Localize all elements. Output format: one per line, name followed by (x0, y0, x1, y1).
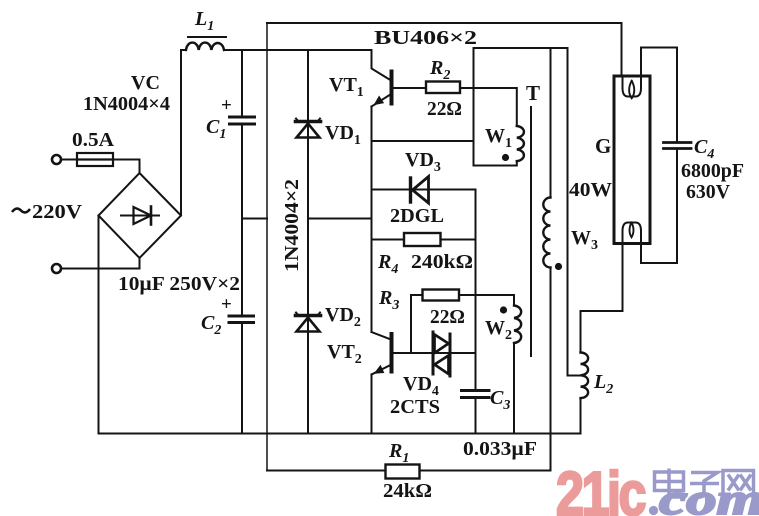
wire C2 to bottom rail (241, 324, 243, 434)
wire lamp right pin top to C4 (641, 48, 677, 142)
wire W1 bottom loop (474, 161, 517, 166)
lamp bottom filament (623, 223, 642, 243)
wire terminal to fuse (61, 159, 77, 161)
bridge inner diode (121, 207, 159, 225)
diode VD3 row wire (372, 189, 476, 191)
terminal lower AC (52, 264, 61, 273)
resistor R3 left leg (410, 295, 412, 353)
resistor R4 (404, 233, 441, 246)
inductor L2 (581, 353, 589, 399)
fuse FU 0.5A (77, 153, 113, 166)
transistor VT2 base bar (390, 334, 394, 372)
capacitor C2 (229, 316, 254, 323)
wire C3 bottom (475, 399, 477, 434)
transistor VT2 collector (372, 332, 390, 339)
wire lamp left pin bottom to L2 (581, 244, 623, 353)
winding W1 (517, 126, 524, 161)
wire bottom mid rail (99, 433, 581, 435)
svg-text:2DGL: 2DGL (390, 205, 444, 227)
wire W2 bottom down (513, 343, 515, 434)
wire VT2 base row (394, 352, 476, 354)
wire C1C2 column upper (241, 50, 243, 116)
wire VT1 emitter column (midpoint) (371, 107, 373, 333)
wire VT1 base to R2 (394, 87, 427, 89)
svg-text:T: T (526, 81, 540, 105)
svg-text:0.5A: 0.5A (72, 129, 115, 151)
wire C1 to midpoint (241, 126, 243, 315)
wire C4 bottom to lamp right pin bottom (641, 150, 677, 263)
capacitor C1 (230, 117, 255, 124)
transistor VT1 base bar (390, 72, 394, 104)
lamp top filament (623, 77, 642, 98)
wire bridge left vertex down to bottom rail (98, 216, 100, 434)
svg-text:21ic: 21ic (556, 460, 645, 516)
inductor L1 (186, 43, 224, 50)
svg-text:0.033µF: 0.033µF (463, 438, 537, 460)
node dot W2 polarity (500, 306, 507, 313)
svg-text:10µF 250V×2: 10µF 250V×2 (118, 273, 240, 295)
svg-text:6800pF: 6800pF (681, 160, 744, 182)
resistor R3 (423, 290, 460, 301)
wire midpoint VD column to transistor column (308, 218, 372, 220)
svg-text:24kΩ: 24kΩ (383, 480, 432, 502)
svg-text:22Ω: 22Ω (430, 306, 465, 328)
capacitor C3 (462, 391, 490, 398)
wire L2 bottom to mid rail (580, 398, 582, 434)
diode VD2 (296, 313, 321, 332)
wire top rail from left column to lamp (267, 22, 622, 24)
wire VD3/R4 right column down (475, 190, 477, 389)
wire left column vertical x=267 (266, 23, 268, 471)
wire midpoint stub C2 column to left column (242, 218, 267, 220)
terminal upper AC (52, 155, 61, 164)
svg-text:2CTS: 2CTS (390, 396, 440, 418)
svg-text:+: + (221, 294, 232, 315)
svg-text:com: com (659, 475, 759, 516)
diode VD3 symbol (411, 177, 429, 204)
svg-text:VC: VC (131, 72, 160, 94)
wire R1 to W3 bottom column (420, 470, 551, 472)
svg-text:220V: 220V (32, 201, 83, 223)
lamp tube G (614, 76, 650, 244)
svg-text:+: + (221, 95, 232, 116)
winding W3 (543, 198, 550, 268)
wire lamp left pin top (621, 23, 623, 76)
svg-text:40W: 40W (569, 179, 612, 201)
svg-text:1N4004×4: 1N4004×4 (83, 93, 170, 115)
capacitor C4 (664, 143, 692, 149)
diac VD4 (433, 332, 450, 376)
wire W1 left vertical (473, 48, 475, 166)
wire W3 bottom down to R1 rail (550, 268, 552, 471)
wire bridge right vertex up to L1 (181, 50, 186, 216)
wire fuse to bridge top (113, 160, 140, 174)
bridge rectifier VC diamond (99, 173, 182, 258)
transformer core (530, 107, 532, 356)
transistor VT1 emitter with arrow (372, 95, 390, 107)
resistor R3 row wire (411, 295, 514, 306)
watermark logo 21ic.com (556, 460, 759, 516)
wire R2 to W1 top (460, 88, 517, 126)
svg-text:240kΩ: 240kΩ (411, 251, 473, 273)
wire lower terminal to bridge bottom (61, 258, 140, 269)
resistor R4 row wire (372, 239, 476, 241)
wire VD column x=308 (307, 50, 309, 434)
wire node rail y=48 (474, 47, 568, 49)
wire B+ rail y=50 to VT1 collector (224, 49, 372, 51)
svg-text:BU406×2: BU406×2 (374, 27, 477, 49)
diode VD1 (296, 119, 321, 138)
wire W3 column top (550, 48, 552, 198)
resistor R1 (386, 465, 420, 479)
svg-text:1N4004×2: 1N4004×2 (281, 179, 303, 272)
transistor VT2 emitter with arrow (372, 366, 390, 375)
resistor R2 (426, 82, 460, 94)
wire feedback column x=567.5 (568, 48, 581, 376)
transistor VT1 collector (372, 50, 390, 80)
wire VT2 emitter down (371, 375, 373, 434)
L1 label underline (188, 36, 226, 38)
svg-text:630V: 630V (686, 181, 731, 203)
svg-text:G: G (595, 134, 611, 158)
wire left column to R1 rail corner (267, 470, 386, 472)
node dot W3 polarity (555, 263, 562, 270)
wire midpoint to W1 left vertical (372, 140, 474, 142)
node dot W1 polarity (502, 154, 509, 161)
winding W2 (514, 306, 521, 344)
svg-text:22Ω: 22Ω (427, 98, 462, 120)
